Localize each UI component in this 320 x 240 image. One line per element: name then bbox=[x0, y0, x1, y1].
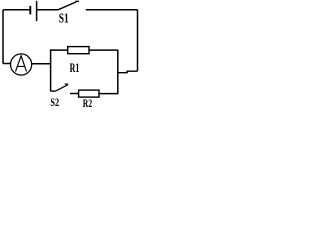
svg-text:R1: R1 bbox=[70, 61, 80, 75]
svg-text:S2: S2 bbox=[50, 96, 59, 109]
wire left rail to ammeter bbox=[3, 63, 11, 65]
wire R1 to right bar bbox=[89, 49, 118, 51]
battery cell: short plate bbox=[29, 6, 31, 15]
switch S2 blade bbox=[55, 84, 68, 91]
wire left bar bottom stub to switch S2 bbox=[51, 90, 55, 92]
svg-text:S1: S1 bbox=[59, 11, 69, 26]
ammeter A1 circle bbox=[11, 54, 32, 75]
battery cell: long plate bbox=[36, 1, 38, 21]
resistor R1 body bbox=[68, 47, 89, 54]
wire battery to switch S1 bbox=[36, 9, 58, 11]
ammeter A1 letter A bbox=[16, 56, 27, 72]
wire right junction bar bbox=[117, 50, 119, 95]
svg-text:R2: R2 bbox=[83, 98, 93, 110]
resistor R2 body bbox=[79, 90, 99, 97]
switch S1 blade bbox=[58, 1, 79, 10]
wire top-left lead to battery bbox=[3, 9, 30, 11]
wire left bar to R1 bbox=[51, 49, 68, 51]
wire switch S1 to top-right corner bbox=[86, 9, 138, 11]
wire left rail down bbox=[2, 10, 4, 64]
wire ammeter to left junction bar bbox=[32, 63, 51, 65]
wire jog from right rail to right junction bar bbox=[118, 71, 138, 73]
wire right rail down bbox=[137, 10, 139, 71]
wire left junction bar bbox=[50, 49, 52, 91]
wire R2 to right bar bbox=[99, 93, 118, 95]
wire S2 to R2 bbox=[70, 93, 79, 95]
